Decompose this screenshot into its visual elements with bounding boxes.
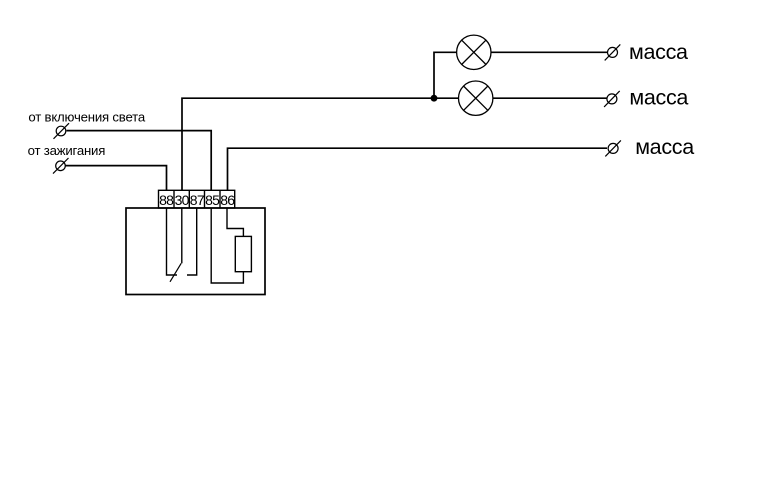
svg-text:88: 88 (159, 192, 174, 208)
svg-text:масса: масса (629, 85, 688, 109)
terminal X1 light-switch input (54, 123, 70, 139)
node junction dot (431, 95, 438, 102)
relay K1 body (126, 208, 265, 295)
wire junction riser to lamp HL1 (434, 52, 457, 98)
svg-text:87: 87 (190, 192, 205, 208)
svg-text:масса: масса (629, 40, 688, 64)
relay contact pin87 internal lead (187, 208, 197, 275)
relay K1 terminal strip boxes (159, 190, 235, 208)
terminal ground 3 (605, 140, 621, 156)
wire junction to lamp HL2 (434, 97, 459, 99)
svg-text:86: 86 (220, 192, 235, 208)
relay contact pin88 internal lead (167, 208, 178, 275)
wire light-switch terminal to pin85 (67, 131, 212, 191)
wire pin86 riser and horizontal to ground terminal (228, 148, 608, 190)
wire lamp HL1 to ground terminal (491, 51, 608, 53)
lamp HL1 (457, 35, 491, 69)
relay switch arm (170, 263, 181, 282)
wire lamp HL2 to ground terminal (493, 97, 607, 99)
relay coil lead pin86 (227, 208, 243, 236)
svg-text:30: 30 (175, 192, 190, 208)
lamp HL2 (459, 81, 493, 115)
relay coil K1 (235, 236, 251, 271)
svg-text:от включения света: от включения света (28, 110, 145, 125)
terminal ground 2 (604, 91, 620, 107)
svg-text:85: 85 (205, 192, 220, 208)
svg-text:масса: масса (635, 135, 694, 159)
wire ignition terminal to pin88 (66, 166, 167, 191)
relay contact pin30 internal lead (181, 208, 183, 263)
terminal ground 1 (605, 44, 621, 60)
svg-text:от зажигания: от зажигания (28, 143, 106, 158)
relay coil lead pin85 (211, 208, 243, 283)
terminal X2 ignition input (53, 158, 69, 174)
wire pin30 riser and horizontal to junction (182, 98, 434, 190)
